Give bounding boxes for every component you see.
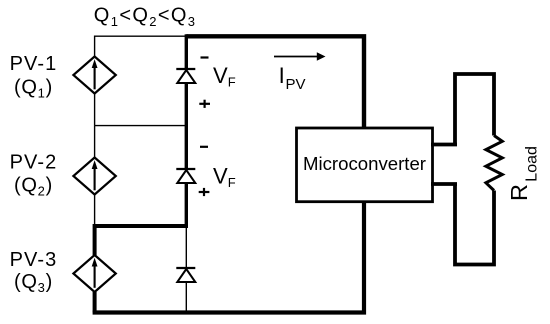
- wire load bracket top: [455, 74, 494, 146]
- wire junction 1 to PV-2 top (thin): [94, 126, 96, 158]
- svg-text:(Q2): (Q2): [14, 174, 53, 198]
- current source PV-1 (diamond): [73, 57, 115, 94]
- svg-text:R: R: [506, 184, 532, 201]
- wire PV-2 bottom to junction 2 (thin): [94, 195, 96, 227]
- wire thick PV-3 bottom to bottom rail: [93, 292, 97, 313]
- resistor RLoad zigzag: [486, 136, 502, 191]
- svg-text:Q1<Q2<Q3: Q1<Q2<Q3: [94, 5, 197, 29]
- svg-text:PV-2: PV-2: [10, 151, 58, 173]
- diode D2 triangle: [177, 170, 195, 183]
- plus sign D1: [199, 103, 210, 105]
- diode D3 triangle: [177, 269, 195, 282]
- svg-text:(Q3): (Q3): [14, 271, 53, 295]
- arrow inside PV-2: [94, 168, 96, 191]
- wire diode column junction 2 to D3 (thin): [185, 226, 187, 268]
- wire stub upper (microconverter to load): [431, 143, 457, 147]
- wire thick D1 to D2: [185, 83, 188, 168]
- svg-text:I: I: [279, 63, 285, 88]
- svg-text:PV: PV: [286, 76, 306, 93]
- wire top string (thin): [95, 36, 187, 57]
- plus sign D2: [199, 191, 210, 193]
- wire thick D2 to junction 2: [185, 183, 188, 226]
- diode D2 cathode bar: [176, 168, 195, 170]
- wire thick top rail to microconverter: [186, 36, 364, 128]
- arrow inside PV-1: [94, 67, 96, 90]
- current source PV-2 (diamond): [73, 158, 115, 195]
- svg-text:PV-3: PV-3: [10, 249, 58, 271]
- svg-text:Load: Load: [524, 146, 541, 182]
- wire junction 1 (thin): [95, 125, 187, 127]
- diode D1 triangle: [177, 70, 195, 83]
- microconverter U1 box: [297, 128, 433, 202]
- minus sign D2: [200, 146, 208, 148]
- arrow inside PV-3: [94, 265, 96, 288]
- wire PV-1 bottom to junction 1 (thin): [94, 94, 96, 126]
- diode D1 cathode bar: [176, 68, 195, 70]
- current arrow IPV: [274, 56, 318, 58]
- wire thick current path: diode column top to D1: [185, 34, 188, 68]
- diode D3 cathode bar: [176, 267, 195, 269]
- wire thick bottom rail: [93, 201, 364, 313]
- current source PV-3 (diamond): [73, 255, 115, 292]
- svg-text:PV-1: PV-1: [10, 53, 58, 75]
- wire thick junction 2 horizontal: [95, 226, 188, 255]
- wire stub lower (microconverter to load): [431, 182, 457, 186]
- minus sign D1: [201, 56, 209, 58]
- svg-text:Microconverter: Microconverter: [303, 153, 426, 174]
- wire load bracket bottom: [455, 183, 494, 265]
- svg-text:(Q1): (Q1): [14, 76, 53, 100]
- wire D3 to bottom (thin): [185, 283, 187, 313]
